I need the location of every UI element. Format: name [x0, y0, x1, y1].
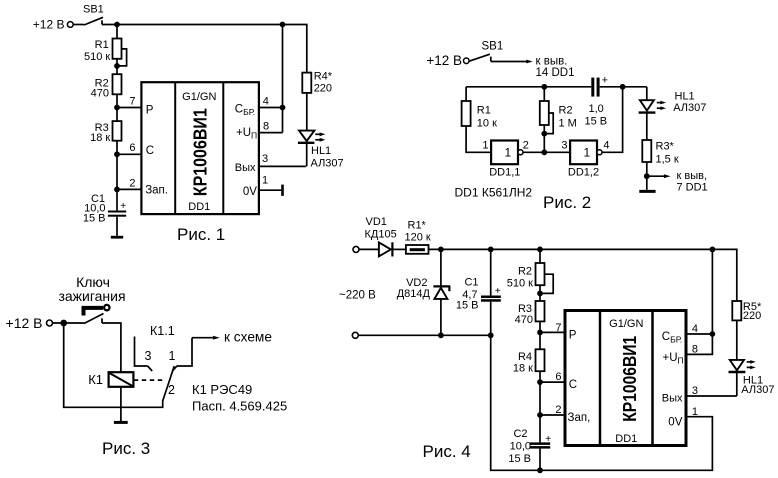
switch SB1 (Fig.2) [469, 41, 503, 62]
svg-text:3: 3 [692, 385, 698, 397]
svg-text:+: + [602, 75, 608, 87]
svg-text:1: 1 [482, 140, 488, 152]
svg-text:1: 1 [584, 146, 591, 160]
svg-text:0V: 0V [243, 186, 257, 198]
svg-text:3: 3 [561, 139, 567, 151]
wire rail pins 4,8 to top [282, 25, 284, 133]
resistor R3 18k [90, 121, 121, 144]
wire LED to pin3 (Fig.4) [736, 372, 738, 396]
svg-text:КД105: КД105 [365, 229, 397, 241]
wire arrow to pin 7 DD1 [647, 170, 708, 193]
svg-text:2: 2 [129, 177, 135, 189]
svg-text:P: P [146, 105, 154, 117]
pin 8 wire (Fig.4) [686, 249, 712, 355]
wire switch to relay coil [102, 323, 121, 372]
svg-text:1: 1 [505, 146, 512, 160]
switch SB1 [73, 3, 104, 25]
svg-text:1: 1 [262, 175, 268, 187]
node pin6 junction (Fig.4) [537, 371, 565, 385]
svg-text:к схеме: к схеме [224, 330, 272, 345]
contact K1.1 pin 1 terminal and output [169, 338, 192, 371]
svg-text:Зап.: Зап. [145, 185, 168, 197]
logic gate DD1.2 [561, 139, 609, 178]
svg-text:8: 8 [692, 344, 698, 356]
resistor R3 470 (Fig.4) [515, 301, 545, 326]
pin 8 wire [259, 121, 283, 133]
svg-text:к выв,: к выв, [677, 170, 708, 182]
svg-text:R1: R1 [95, 39, 109, 51]
svg-text:Зап,: Зап, [568, 412, 591, 424]
svg-text:VD1: VD1 [366, 216, 387, 228]
svg-text:C1: C1 [464, 277, 478, 289]
junction dot pins 4,8 rail (Fig.4) [710, 247, 716, 253]
wire R3 to R4 (Fig.4) [539, 321, 541, 349]
wire R1 to gate input [466, 126, 491, 152]
wire arrow to pin 14 DD1 [491, 56, 575, 79]
svg-text:7: 7 [555, 322, 561, 334]
svg-text:1: 1 [169, 349, 176, 363]
logic gate DD1.1 [482, 140, 529, 179]
svg-text:~220 В: ~220 В [339, 290, 376, 302]
svg-text:R4: R4 [518, 351, 532, 363]
pin 1 label (Fig.4) [692, 406, 698, 418]
svg-text:HL1: HL1 [311, 145, 331, 157]
svg-text:2: 2 [555, 404, 561, 416]
wire LED to pin3 [306, 143, 308, 167]
svg-text:+: + [120, 201, 126, 212]
svg-text:АЛ307: АЛ307 [741, 384, 774, 396]
svg-text:C2: C2 [513, 428, 527, 440]
svg-text:1,0: 1,0 [589, 103, 604, 115]
LED HL1 AL307 (Fig.1) [298, 131, 344, 170]
svg-text:Рис. 1: Рис. 1 [177, 225, 225, 244]
svg-text:2: 2 [523, 140, 529, 152]
label ~220V [339, 290, 376, 302]
node pin7 junction [114, 95, 141, 110]
wire bottom rail (Fig.4) [491, 335, 713, 470]
ground (Fig.2) [639, 190, 655, 193]
label ignition key [58, 274, 125, 304]
capacitor C2 10.0 15V (Fig.4) [508, 428, 551, 470]
pin 3 wire (Fig.4) [686, 385, 737, 397]
junction dot R2 bottom [541, 149, 547, 155]
svg-text:2: 2 [168, 383, 175, 397]
resistor R1 10k (Fig.2) [462, 101, 497, 130]
svg-text:G1/GN: G1/GN [182, 91, 216, 103]
wire lower-left rail (Fig.4) [359, 334, 491, 336]
svg-text:4: 4 [603, 139, 609, 151]
svg-text:6: 6 [555, 371, 561, 383]
IC DD1 KR1006VI1 (Fig.4) [565, 311, 686, 446]
svg-text:SB1: SB1 [83, 3, 104, 15]
svg-text:+12 В: +12 В [426, 53, 462, 68]
svg-text:+12 В: +12 В [33, 18, 65, 32]
node +12V terminal (Fig.3) [6, 315, 53, 331]
wire R5 to LED (Fig.4) [736, 320, 738, 372]
junction dot below R1 [114, 59, 120, 74]
pin 4 wire [259, 95, 283, 107]
svg-text:Вых: Вых [235, 162, 256, 174]
label K1 RES49 [192, 382, 287, 413]
label DD1 K561LN2 [455, 186, 533, 200]
pin 1 wire and 0V terminator [259, 175, 283, 196]
svg-text:к выв.: к выв. [536, 56, 568, 68]
junction dot output rail top [620, 84, 626, 90]
svg-text:510 к: 510 к [507, 278, 533, 290]
junction dot pin4 [280, 105, 286, 111]
svg-text:DD1,2: DD1,2 [568, 167, 599, 179]
svg-text:КР1006ВИ1: КР1006ВИ1 [190, 108, 211, 196]
svg-text:470: 470 [91, 87, 109, 99]
wire left rail and bottom rail (Fig.3) [64, 323, 163, 407]
svg-text:Д814Д: Д814Д [397, 288, 431, 300]
svg-text:4: 4 [263, 95, 269, 107]
resistor R1 510k (variable) [84, 39, 127, 66]
contact K1.1 pin 3 terminal [135, 337, 153, 372]
junction dot pin4 (Fig.4) [710, 331, 716, 337]
junction dot output to pin7 [644, 173, 650, 179]
svg-text:R1: R1 [477, 105, 491, 117]
svg-text:АЛ307: АЛ307 [673, 102, 706, 114]
svg-text:+12 В: +12 В [6, 315, 43, 331]
LED HL1 AL307 (Fig.4) [729, 360, 775, 396]
node AC terminal top (Fig.4) [353, 246, 379, 252]
svg-text:зажигания: зажигания [58, 288, 125, 304]
wire R4 to C2 (Fig.4) [539, 371, 541, 442]
svg-text:510 к: 510 к [84, 51, 110, 63]
svg-text:R2: R2 [518, 266, 532, 278]
wire arrow to circuit [192, 330, 272, 345]
node pin2 junction [114, 177, 141, 192]
svg-text:18 к: 18 к [513, 362, 533, 374]
svg-text:Рис. 3: Рис. 3 [102, 439, 150, 458]
wire top rail Fig.1 [102, 25, 307, 73]
svg-text:8: 8 [263, 121, 269, 133]
wire left rail to R1 [465, 87, 467, 101]
svg-text:1: 1 [692, 406, 698, 418]
resistor R3* 1.5k (Fig.2) [642, 140, 679, 165]
caption Fig.2 [543, 193, 591, 212]
capacitor C1 4.7uF 15V (Fig.4) [456, 249, 501, 335]
switch ignition contacts [53, 314, 104, 324]
resistor R4 18k (Fig.4) [513, 349, 545, 374]
wire VD1 to R1 [392, 248, 406, 250]
svg-text:Рис. 4: Рис. 4 [423, 442, 471, 461]
svg-text:Пасп. 4.569.425: Пасп. 4.569.425 [192, 398, 287, 413]
resistor R4* 220 [302, 71, 332, 95]
pin 3 wire [259, 153, 306, 167]
junction dot VD2 bottom [438, 332, 444, 338]
svg-text:R4*: R4* [314, 71, 333, 83]
svg-text:R1*: R1* [408, 220, 427, 232]
zener diode VD2 D814D [397, 249, 451, 335]
junction dot top rail to pins 4,8 [280, 22, 286, 28]
caption Fig.4 [423, 442, 471, 461]
wire top rail (Fig.4) [429, 249, 737, 301]
svg-text:0V: 0V [668, 416, 682, 428]
svg-text:470: 470 [515, 314, 533, 326]
op-amp timer U1: IC DD1 KR1006VI1 [141, 82, 259, 214]
contact K1.1 moving blade pin 2 [163, 366, 175, 400]
svg-text:DD1: DD1 [615, 433, 637, 445]
dashed mechanical link [134, 379, 163, 381]
junction dot R2 top (Fig.4) [537, 247, 543, 253]
resistor R2 470 [91, 74, 122, 99]
svg-text:DD1,1: DD1,1 [489, 167, 520, 179]
resistor R2 510k (variable, Fig.4) [507, 249, 553, 293]
node pin2 junction (Fig.4) [537, 404, 565, 418]
svg-text:7: 7 [129, 95, 135, 107]
svg-text:15 В: 15 В [508, 453, 531, 465]
svg-text:7 DD1: 7 DD1 [677, 181, 708, 193]
node +12V terminal (Fig.1) [33, 18, 73, 32]
node AC terminal bottom (Fig.4) [352, 332, 358, 338]
wire coil to bottom rail and ground [120, 387, 122, 422]
label K1.1 [150, 324, 175, 338]
ignition key symbol [82, 305, 110, 316]
svg-text:18 к: 18 к [90, 132, 110, 144]
svg-text:15 В: 15 В [585, 116, 608, 128]
svg-text:15 В: 15 В [456, 299, 479, 311]
junction dot C1 bottom corner [488, 332, 494, 338]
svg-text:SB1: SB1 [482, 41, 504, 53]
svg-text:Рис. 2: Рис. 2 [543, 193, 591, 212]
resistor R1* 120k (Fig.4) [405, 220, 431, 254]
wire R2 to R3 [116, 94, 118, 121]
svg-text:DD1: DD1 [188, 201, 210, 213]
svg-text:10 к: 10 к [477, 118, 497, 130]
pin 4 wire (Fig.4) [686, 323, 712, 335]
junction dot +12V (Fig.3) [60, 320, 67, 327]
svg-text:1,5 к: 1,5 к [656, 153, 679, 165]
LED HL1 AL307 (Fig.2) [639, 91, 707, 115]
svg-text:220: 220 [743, 310, 761, 322]
ground (Fig.3) [114, 421, 128, 424]
svg-text:G1/GN: G1/GN [609, 318, 643, 330]
junction dot R2 top [541, 84, 547, 90]
wire R4 to LED [306, 93, 308, 143]
svg-text:3: 3 [145, 349, 152, 363]
svg-text:+: + [545, 434, 551, 445]
wire top rail to LED (Fig.2) [646, 87, 648, 100]
capacitor C1 10.0 15V [83, 193, 126, 225]
svg-text:R2: R2 [559, 105, 573, 117]
diode VD1 KD105 [365, 216, 397, 256]
ground (Fig.1) [111, 236, 123, 239]
svg-text:R3*: R3* [656, 141, 675, 153]
svg-text:КР1006ВИ1: КР1006ВИ1 [619, 336, 640, 422]
svg-text:К1 РЭС49: К1 РЭС49 [192, 382, 252, 397]
svg-text:6: 6 [129, 142, 135, 154]
wire gate2 out up to top rail [602, 87, 623, 153]
svg-text:C: C [569, 379, 577, 391]
svg-text:АЛ307: АЛ307 [311, 158, 344, 170]
wire R3 to C1 [116, 141, 118, 211]
svg-text:C: C [146, 145, 154, 157]
wire top rail (Fig.2) [466, 86, 647, 88]
svg-text:HL1: HL1 [675, 91, 695, 103]
resistor R5* 220 (Fig.4) [732, 301, 762, 322]
caption Fig.3 [102, 439, 150, 458]
relay coil K1 [88, 372, 133, 387]
svg-text:К1: К1 [88, 372, 103, 387]
svg-text:120 к: 120 к [405, 232, 431, 244]
junction dot VD2 top [438, 247, 444, 253]
junction dot C2 bottom [537, 467, 543, 473]
svg-text:4: 4 [692, 323, 698, 335]
svg-text:+: + [495, 286, 501, 297]
wire gate1 out to gate2 in [523, 151, 570, 153]
svg-text:К1.1: К1.1 [150, 324, 175, 338]
resistor R2 1M (variable, Fig.2) [540, 87, 577, 153]
junction dot C1 top [488, 247, 494, 253]
node +12V terminal (Fig.2) [426, 53, 469, 68]
svg-text:10,0: 10,0 [510, 440, 531, 452]
wire C1 to ground [116, 217, 118, 236]
wire LED to R3 (Fig.2) [646, 113, 648, 140]
svg-text:1 М: 1 М [559, 118, 577, 130]
svg-text:DD1 К561ЛН2: DD1 К561ЛН2 [455, 186, 533, 200]
caption Fig.1 [177, 225, 225, 244]
node pin7 junction (Fig.4) [537, 322, 565, 335]
wire SB1 node down to R1 [116, 25, 118, 39]
svg-text:Вых: Вых [662, 393, 683, 405]
junction dot below R2 (Fig.4) [537, 285, 543, 301]
svg-text:P: P [569, 330, 577, 342]
svg-text:3: 3 [262, 153, 268, 165]
node pin6 junction [114, 142, 141, 157]
svg-text:15 В: 15 В [83, 213, 106, 225]
svg-text:220: 220 [314, 83, 332, 95]
junction dot at SB1/R1 [114, 22, 120, 28]
svg-text:14 DD1: 14 DD1 [536, 67, 575, 79]
capacitor 1.0uF 15V (Fig.2) [585, 75, 609, 128]
wire R3 to ground (Fig.2) [646, 162, 648, 190]
